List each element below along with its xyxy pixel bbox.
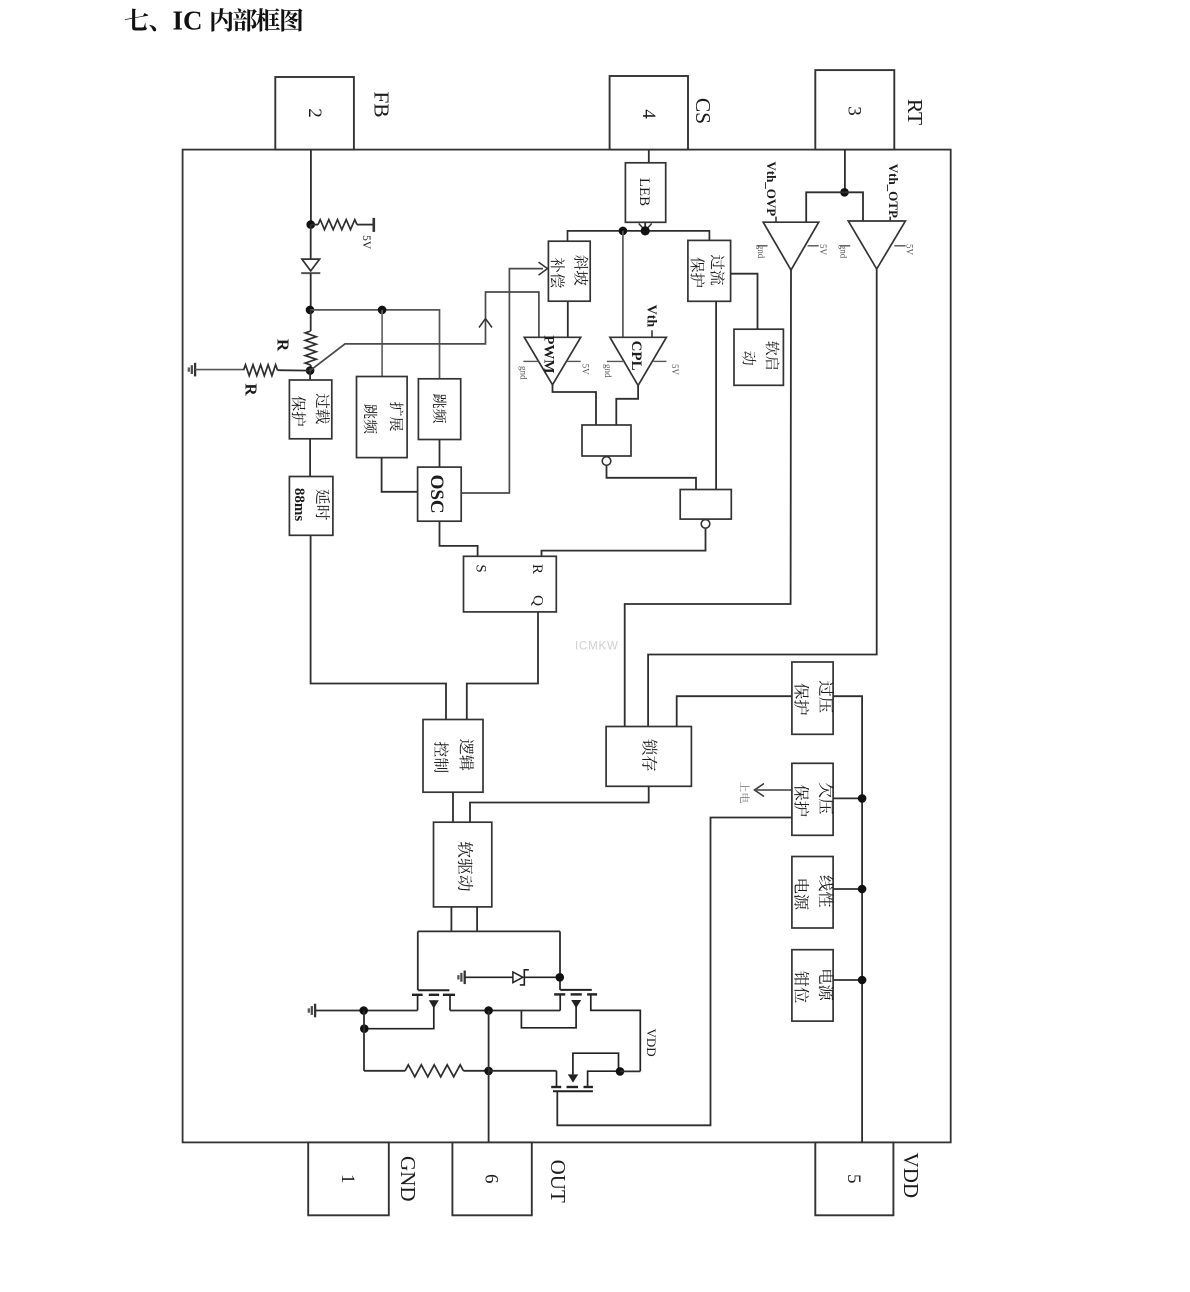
wire 过流保护 to 软启动 [731,274,758,330]
pin 6 label OUT [546,1160,570,1203]
block 过压保护 [792,662,834,734]
wire pin3 RT lead [844,150,846,193]
wires 软驱动 to gate rail [451,907,477,932]
block 88ms 延时 [289,477,333,536]
block 电源钳位 [792,950,834,1021]
wire rail to M2 gate [559,931,561,990]
wire 欠压保护 to output clamp gate [557,818,792,1126]
wire OSC to S input [440,521,478,556]
wire 88ms to 逻辑控制 [311,535,446,719]
wire Q output to 逻辑控制 [467,612,538,720]
svg-text:VDD: VDD [899,1153,923,1199]
pin 1 label GND [396,1156,420,1202]
op-amp comparator Vth_OTP [848,221,905,269]
node VDD rail dot 2 [858,885,867,894]
block OSC [418,467,462,521]
label R (upper) [274,339,293,352]
node body dot [360,1024,369,1033]
svg-text:gnd: gnd [838,245,848,259]
wire 过流保护 down to NAND2 [715,301,717,489]
node VDD rail dot 1 [858,794,867,803]
block 欠压保护 [792,763,834,835]
node R bottom junction [306,366,315,375]
svg-text:gnd: gnd [603,364,613,378]
label Vth_OVP [764,161,779,222]
svg-text:Vth_OTP: Vth_OTP [886,164,901,218]
wire gate rail [418,930,560,932]
block 软驱动 [434,822,492,907]
pin 4 (CS) [610,76,688,150]
node bus dot B [641,226,650,235]
wire CPL output to NAND1 [616,386,638,426]
wire NAND1 to NAND2 [607,466,697,490]
label Vth_OTP [886,164,901,221]
node M3-M2 dot [616,1067,625,1076]
svg-text:OSC: OSC [426,475,447,514]
gate NAND2 [680,490,731,529]
svg-text:5: 5 [843,1174,864,1184]
svg-text:LEB: LEB [636,178,652,206]
resistor R to ground (horizontal) [195,365,310,376]
svg-text:VDD: VDD [644,1029,659,1057]
wire diode to FB bus [310,273,312,310]
ground (FB divider) [194,363,196,377]
block 锁存 [606,727,691,787]
node bus dot A [619,227,628,236]
wire 过压保护 to 锁存 [677,696,792,726]
wire to 扩展跳频 [381,310,383,377]
pin 2 label FB [370,91,394,117]
op-amp comparator CPL [610,337,667,385]
label VDD (internal) [644,1029,659,1057]
svg-text:Vth: Vth [643,305,658,328]
svg-text:88ms: 88ms [291,488,307,521]
wire OUT line to pin 6 [488,1011,490,1143]
5V supply terminal bar [372,218,375,232]
svg-text:RT: RT [903,99,927,125]
label 5V (CPL) [653,361,680,375]
label 5V (OTP) [894,244,914,256]
pin 5 label VDD [899,1153,923,1199]
wire 跳频 to OSC [439,440,441,468]
label R (lower) [242,383,261,396]
svg-text:CPL: CPL [628,341,644,371]
wire PWM output to NAND1 [553,385,597,425]
svg-text:2: 2 [304,108,325,118]
wire LEB to bus with arrow [639,222,652,230]
node FB bus dot [306,306,315,315]
svg-text:FB: FB [370,91,394,117]
svg-text:PWM: PWM [541,335,557,373]
svg-text:5V: 5V [581,364,591,376]
svg-text:gnd: gnd [518,366,528,380]
wire OSC to 斜坡补偿 (ramp) with arrow [461,262,547,493]
wire 锁存 to 软驱动 [470,786,649,822]
svg-text:R: R [274,339,293,352]
wire 电源钳位 to VDD rail [833,979,862,981]
wire bus to CPL input [622,231,624,337]
svg-text:6: 6 [481,1174,502,1184]
label 上电 [740,782,750,803]
wire 过载保护 to 88ms [309,439,311,477]
pin 3 (RT) [815,70,894,150]
IC outer boundary rectangle [183,150,951,1143]
wire RT to comparators [806,192,863,222]
block 软启动 [734,329,783,385]
label gnd (PWM) [518,361,538,380]
wire OVP output to 锁存 [625,270,791,727]
op-amp comparator PWM [524,335,580,385]
block 逻辑控制 [423,720,483,793]
transistor M1 (low side) [364,990,455,1028]
ground (output stage) [314,1004,316,1018]
block 扩展跳频 [357,377,408,458]
wire 线性电源 to VDD rail [833,888,862,890]
block 过流保护 [688,240,731,301]
svg-text:Vth_OVP: Vth_OVP [764,161,779,216]
wire OTP output to 锁存 [648,269,877,727]
svg-text:5V: 5V [818,244,828,256]
wire dot1 to diode [310,225,312,260]
transistor M3 (clamp) [551,1053,618,1091]
title 七、IC 内部框图 [125,5,303,35]
pin 1 (GND) [308,1142,389,1215]
block 过载保护 [289,380,331,439]
pin 3 label RT [903,99,927,125]
resistor R (vertical) [305,310,316,371]
wire pin2 FB lead [310,150,312,225]
label gnd (OTP) [838,245,850,259]
wire M3 node to VDD branch [620,1070,640,1072]
label 5V [360,235,372,250]
pin 5 (VDD) [815,1142,893,1215]
node bus dot at 382 [378,306,387,315]
diode D1 (anode up) [301,259,320,273]
svg-text:5V: 5V [360,235,372,250]
svg-text:3: 3 [844,106,865,116]
flip-flop SRQ [464,556,557,612]
svg-text:IC: IC [173,5,203,35]
wire pin4 lead [648,150,650,163]
svg-text:1: 1 [337,1174,358,1184]
label Vth (CPL) [643,305,658,338]
svg-text:ICMKW: ICMKW [575,641,619,653]
gate NAND1 [582,425,631,465]
node zener-gate dot [556,973,565,982]
pin 6 (OUT) [452,1142,531,1215]
node RT dot [840,188,849,197]
wire body line down [363,1011,365,1071]
zener diode Z1 [465,970,560,985]
node VDD rail dot 3 [858,976,867,985]
label gnd (CPL) [603,361,624,378]
node FB junction dot1 [306,220,315,229]
node gnd line dot [359,1006,368,1015]
wire NAND2 to R input [542,529,706,557]
wire FB horizontal bus [310,310,440,379]
svg-text:S: S [472,564,488,572]
label 5V (PWM) [566,361,590,375]
svg-text:OUT: OUT [546,1160,570,1203]
svg-text:R: R [242,383,261,396]
wire M1 source to OUT node [450,1010,560,1012]
arrow 上电 (power-on) [755,784,792,797]
pin 4 label CS [691,98,715,124]
wire ground line to M1 [315,1010,418,1012]
transistor M2 (high side) [521,990,640,1072]
svg-text:Q: Q [529,595,545,606]
svg-text:5V: 5V [670,364,680,376]
wire CS bus [568,231,710,241]
svg-text:gnd: gnd [756,245,766,259]
op-amp comparator Vth_OVP [763,222,819,270]
wire 欠压保护 to VDD rail [833,797,862,799]
svg-text:CS: CS [691,98,715,124]
block 斜坡补偿 [548,241,590,301]
wire 扩展跳频 to OSC [382,458,418,492]
label 5V (OVP) [808,244,828,256]
resistor to 5V (horizontal) [311,220,373,230]
node resistor-OUT dot [484,1067,493,1076]
svg-text:4: 4 [638,109,659,119]
svg-text:GND: GND [396,1156,420,1202]
resistor R2 (gate pulldown) [364,1065,489,1077]
label gnd (OVP) [756,245,768,259]
block 线性电源 [792,857,834,929]
block 跳频 [418,379,460,440]
pin 2 (FB) [275,77,354,150]
wire resistor to M3 [489,1070,557,1072]
wire FB feedback to PWM input (with up arrow) [310,292,539,371]
block LEB [625,163,665,223]
wire 斜坡补偿 to PWM [567,301,569,337]
wire rail to M1 gate [417,931,419,990]
wire R junction into 过载保护 [309,368,311,380]
svg-text:R: R [529,564,545,574]
node OUT dot [484,1006,493,1015]
ground (zener) [464,971,466,985]
wire 逻辑控制 to 软驱动 [452,792,454,822]
wire 过压保护 to VDD rail [833,696,862,1142]
svg-text:5V: 5V [904,244,914,256]
